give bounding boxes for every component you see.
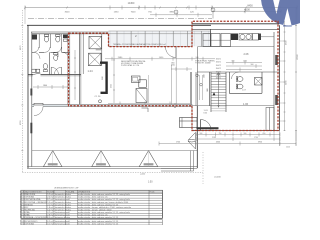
- dim rows right room: [226, 61, 262, 72]
- hall closet corner: [266, 108, 274, 131]
- living room north wall with fill: [32, 104, 192, 106]
- door arc bathroom: [232, 72, 239, 79]
- svg-text:laminatova podl.: laminatova podl.: [55, 222, 70, 225]
- stall divider 2: [50, 34, 52, 48]
- table second block: [21, 220, 163, 225]
- dim horizontal y=69: [171, 67, 192, 71]
- wall x=101.8: [101, 34, 103, 66]
- svg-text:CHODBA: CHODBA: [25, 222, 34, 225]
- window sill 1: [48, 163, 58, 165]
- south facade wall: [32, 150, 198, 152]
- corridor wall bathrooms: [32, 51, 70, 53]
- kitchen zone bottom line: [197, 46, 274, 48]
- svg-text:LEGENDA MIESTNOSTI 1.NP: LEGENDA MIESTNOSTI 1.NP: [54, 186, 79, 189]
- dim row y=103.5: [108, 102, 190, 106]
- svg-text:900: 900: [251, 64, 254, 66]
- radiator: [180, 118, 198, 128]
- svg-text:1700: 1700: [176, 142, 180, 144]
- window sill 3: [144, 163, 154, 165]
- stall divider 1: [38, 34, 40, 48]
- dim row left room: [33, 85, 68, 89]
- south sill outer lines: [27, 167, 197, 169]
- wc stall2: [44, 35, 48, 37]
- wall stub x=175: [174, 104, 176, 109]
- dark C wall: [100, 62, 108, 95]
- extension lines right corner: [274, 131, 296, 147]
- svg-text:1.24: 1.24: [88, 69, 94, 73]
- window sill 2: [96, 163, 106, 165]
- dimension line top: [24, 6, 298, 10]
- wall stub x=58: [57, 52, 59, 57]
- shaft X box 1: [89, 36, 102, 49]
- svg-text:18x172: 18x172: [216, 59, 221, 61]
- wc stall3: [56, 35, 60, 37]
- fixture small room: [63, 35, 68, 39]
- svg-text:malba stierka - biela sadrova: malba stierka - biela sadrova omietka VC…: [78, 216, 119, 219]
- wall under red x=192 bottom: [191, 106, 193, 131]
- wall under red x=112: [108, 34, 110, 47]
- svg-text:UPRAVA STIEN: UPRAVA STIEN: [78, 191, 91, 194]
- inner wall top right section: [192, 28, 279, 30]
- dim vertical x=284.5: [284, 21, 286, 131]
- svg-text:900: 900: [200, 133, 203, 135]
- dotted vertical: [202, 152, 204, 184]
- hall symbols circles: [196, 74, 199, 77]
- stall divider 3: [61, 34, 63, 53]
- window triangle 1: [43, 151, 62, 167]
- hob circles: [239, 34, 252, 41]
- wc top room: [54, 53, 58, 55]
- door arc living: [34, 107, 43, 116]
- svg-text:TERASA + SCHODISKO: TERASA + SCHODISKO: [25, 216, 48, 219]
- door leaf: [34, 103, 43, 105]
- wall x=80: [78, 34, 80, 105]
- svg-text:1:50: 1:50: [148, 181, 153, 183]
- sill between boxes: [96, 49, 102, 51]
- svg-text:18.9 m2: 18.9 m2: [46, 217, 54, 219]
- wall under red x=192 top: [191, 21, 193, 46]
- sink dark right: [258, 34, 261, 41]
- svg-text:600: 600: [232, 61, 235, 63]
- door arc terrace: [166, 47, 177, 58]
- dim ext x=148.6: [148, 75, 150, 103]
- counter line to wall: [261, 36, 274, 38]
- svg-text:IZBA: IZBA: [25, 211, 30, 214]
- svg-text:2100: 2100: [204, 74, 206, 78]
- axis end circle: [174, 10, 178, 14]
- wc 1: [237, 77, 243, 82]
- wall horizontal y=74.5: [28, 74, 81, 76]
- room schedule table: [21, 190, 163, 218]
- bathroom block top inner wall: [32, 33, 109, 35]
- wall y=72: [197, 71, 279, 73]
- dim vertical x=296: [295, 8, 297, 142]
- svg-text:18x172: 18x172: [216, 65, 221, 67]
- stall door arc 1: [34, 47, 39, 52]
- door mat: [197, 127, 219, 129]
- dark cabinet: [231, 34, 238, 41]
- window marks right wall: [275, 55, 278, 65]
- dim vertical x=71.5: [74, 50, 76, 100]
- svg-text:POZN.: POZN.: [150, 192, 156, 194]
- svg-text:laminatova podl.: laminatova podl.: [55, 220, 70, 223]
- stair arrow: [218, 73, 220, 107]
- outer wall left: [27, 25, 29, 168]
- dim vertical x=176.2: [175, 47, 177, 105]
- wall x=83.2: [82, 34, 84, 74]
- svg-text:8.66: 8.66: [204, 113, 207, 115]
- outer wall right: [278, 25, 280, 130]
- wc 2: [237, 84, 243, 89]
- svg-text:(900): (900): [171, 65, 175, 67]
- window band bottom line2: [109, 30, 211, 32]
- svg-text:900: 900: [244, 133, 247, 135]
- svg-text:betonova dlazba: betonova dlazba: [55, 216, 71, 219]
- svg-text:1800: 1800: [43, 85, 47, 87]
- svg-text:4300: 4300: [216, 142, 220, 144]
- svg-text:18x172: 18x172: [216, 68, 221, 70]
- svg-text:malba stierka - biela sadrova: malba stierka - biela sadrova omietka VC…: [78, 198, 131, 201]
- window triangle 3: [139, 151, 158, 167]
- svg-text:1950: 1950: [102, 76, 104, 80]
- sink stall1: [32, 35, 37, 40]
- window mark left wall 1: [30, 123, 32, 134]
- dim row bottom right: [159, 142, 296, 146]
- window triangle 2: [92, 151, 111, 167]
- dotted frame horizontal: [22, 172, 203, 174]
- svg-text:malba stierka - biela sadrova: malba stierka - biela sadrova omietka VC…: [78, 222, 119, 225]
- svg-text:±0,000: ±0,000: [214, 177, 221, 179]
- wall x=210.5: [210, 29, 212, 46]
- svg-text:C1 26: C1 26: [95, 96, 102, 98]
- red unit boundary dashed: [69, 21, 279, 130]
- svg-text:10500: 10500: [297, 54, 299, 60]
- door gap wall74: [33, 74, 41, 77]
- dim vertical x=112.8: [113, 48, 115, 103]
- east wall living room: [196, 106, 198, 168]
- dim line y=14.8: [150, 13, 212, 17]
- dimension line top right 4600: [212, 9, 282, 13]
- door gap: [34, 104, 43, 107]
- wall stub near 141: [142, 108, 149, 112]
- symbol C1: [99, 100, 102, 103]
- svg-text:laminatova podl.: laminatova podl.: [55, 211, 70, 214]
- svg-text:malba stierka - biela sadrova: malba stierka - biela sadrova omietka VC…: [78, 211, 131, 214]
- dim row y=60.5: [105, 57, 215, 61]
- axis dash-dot line: [28, 18, 212, 20]
- kitchen cabinets: [203, 34, 259, 47]
- svg-text:4.1 m2: 4.1 m2: [47, 223, 54, 225]
- svg-text:1.06: 1.06: [243, 102, 249, 106]
- stall door arc 3: [56, 47, 61, 52]
- svg-text:1350: 1350: [114, 12, 120, 14]
- sinks left room: [32, 69, 36, 72]
- hall closet walls: [191, 47, 198, 106]
- staircase: [211, 72, 226, 112]
- dim vertical x=171.7: [171, 65, 173, 105]
- door arc pair above wall74: [51, 67, 58, 74]
- svg-text:PODLAHA: PODLAHA: [66, 191, 75, 194]
- wall room divider x=49.7: [49, 52, 51, 74]
- stall door arc 2: [45, 47, 50, 52]
- porch rails: [161, 151, 194, 171]
- svg-text:TERASA - POCHODZNA DLAZBA NA P: TERASA - POCHODZNA DLAZBA NA PODLOZKACH …: [113, 43, 166, 46]
- section triangle marker: [213, 92, 216, 95]
- svg-text:7600: 7600: [131, 12, 137, 14]
- shower: [255, 78, 263, 86]
- kitchen island: [131, 76, 146, 87]
- inner wall top: [31, 31, 211, 33]
- svg-text:750: 750: [219, 133, 222, 135]
- inner wall right: [273, 32, 275, 131]
- svg-text:NAZOV MIESTNOSTI: NAZOV MIESTNOSTI: [25, 191, 42, 194]
- window mullions north facade: [117, 31, 201, 46]
- svg-text:4600: 4600: [244, 7, 250, 11]
- svg-text:1790: 1790: [254, 137, 258, 139]
- svg-text:1215: 1215: [286, 147, 290, 149]
- svg-text:650: 650: [263, 133, 266, 135]
- svg-text:-0,020: -0,020: [140, 174, 145, 176]
- wall left of red: [67, 34, 69, 106]
- svg-text:2.08: 2.08: [244, 53, 249, 56]
- furniture box S: [136, 89, 147, 103]
- terrace band tint: [109, 31, 211, 46]
- svg-text:3600: 3600: [65, 12, 71, 14]
- svg-text:2625: 2625: [111, 84, 113, 88]
- svg-text:2130: 2130: [212, 137, 216, 139]
- wc left room: [43, 64, 47, 70]
- door arc left room: [34, 52, 41, 59]
- svg-text:240: 240: [196, 57, 199, 59]
- wall under red y=46.9: [109, 46, 193, 48]
- outer wall top: [27, 24, 211, 26]
- svg-text:POZRI DETAIL V.C. 254: POZRI DETAIL V.C. 254: [121, 64, 139, 67]
- svg-text:14300: 14300: [128, 2, 135, 5]
- shaft X box 2: [89, 53, 102, 65]
- stair left wall: [208, 72, 210, 106]
- svg-text:8450: 8450: [247, 5, 253, 8]
- outer wall top right section: [192, 23, 279, 25]
- svg-text:PLOCHA: PLOCHA: [47, 191, 55, 194]
- svg-text:OBYVACIA IZBA: OBYVACIA IZBA: [25, 198, 41, 201]
- logo N blue: [261, 0, 316, 27]
- door arc corridor top: [62, 52, 69, 59]
- entrance recess wall: [192, 130, 279, 132]
- svg-text:18x172: 18x172: [216, 62, 221, 64]
- dotted frame vertical: [21, 10, 23, 173]
- bathroom walls: [229, 72, 262, 93]
- hall door arc: [201, 120, 212, 131]
- svg-text:2300: 2300: [171, 63, 175, 65]
- svg-text:1400: 1400: [207, 88, 209, 92]
- stair text rows: [216, 59, 221, 80]
- corridor wall x=69.8: [69, 34, 71, 106]
- svg-text:1200: 1200: [243, 61, 247, 63]
- svg-text:laminatova podl.: laminatova podl.: [55, 198, 70, 201]
- entry dim cluster: [197, 133, 281, 137]
- svg-text:malba stierka - biela sadrova: malba stierka - biela sadrova omietka VC…: [78, 220, 119, 223]
- hall south wall: [192, 105, 274, 107]
- window band bottom line: [109, 33, 211, 35]
- double door bowtie: [188, 132, 196, 149]
- inner wall left: [31, 32, 33, 167]
- window mark left wall 2: [30, 89, 32, 96]
- svg-text:3950: 3950: [258, 142, 262, 144]
